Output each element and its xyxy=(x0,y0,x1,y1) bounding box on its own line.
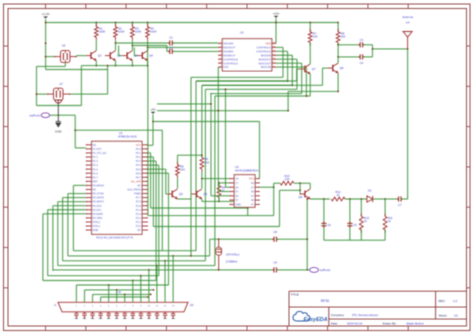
svg-text:2Y: 2Y xyxy=(235,191,238,194)
svg-text:NC: NC xyxy=(137,184,141,188)
svg-text:3A: 3A xyxy=(235,195,238,198)
svg-text:GND: GND xyxy=(55,130,63,134)
svg-text:C1: C1 xyxy=(169,36,173,40)
svg-text:6Y: 6Y xyxy=(251,186,254,189)
svg-text:P1.1/T2_EX: P1.1/T2_EX xyxy=(93,151,107,155)
svg-text:4: 4 xyxy=(220,54,221,56)
svg-text:AT89C52-24JC: AT89C52-24JC xyxy=(118,135,137,139)
svg-text:P3.2/INT0: P3.2/INT0 xyxy=(93,196,105,200)
svg-text:VCC: VCC xyxy=(136,143,142,147)
svg-text:U3: U3 xyxy=(235,165,239,169)
svg-text:D1: D1 xyxy=(368,189,372,193)
svg-text:6: 6 xyxy=(220,62,221,64)
svg-text:9I/OBOUT: 9I/OBOUT xyxy=(223,53,236,57)
svg-text:P2.0: P2.0 xyxy=(136,224,142,228)
svg-text:C6: C6 xyxy=(327,223,331,227)
svg-text:NC: NC xyxy=(93,143,97,147)
svg-text:Drawn By:: Drawn By: xyxy=(383,321,397,325)
svg-text:8: 8 xyxy=(273,66,274,68)
svg-text:U7: U7 xyxy=(59,82,63,86)
svg-text:3Y: 3Y xyxy=(235,199,238,202)
svg-text:P2.1: P2.1 xyxy=(136,220,142,224)
svg-text:C7: C7 xyxy=(398,203,402,207)
svg-text:C4: C4 xyxy=(360,61,364,65)
svg-text:2A: 2A xyxy=(235,186,238,189)
svg-text:4A: 4A xyxy=(251,199,254,202)
svg-text:txdPort2: txdPort2 xyxy=(320,268,331,272)
svg-text:P1.4: P1.4 xyxy=(93,163,99,167)
svg-text:12: 12 xyxy=(273,50,275,52)
svg-text:XTAL1: XTAL1 xyxy=(93,224,101,228)
svg-text:P1.6: P1.6 xyxy=(93,171,99,175)
svg-text:5Y: 5Y xyxy=(251,195,254,198)
svg-text:Q2: Q2 xyxy=(98,54,102,58)
svg-text:CONTROLD: CONTROLD xyxy=(223,61,238,65)
svg-text:11: 11 xyxy=(273,54,275,56)
svg-text:P1.5: P1.5 xyxy=(93,167,99,171)
svg-text:P2.3: P2.3 xyxy=(136,212,142,216)
svg-text:5A: 5A xyxy=(251,191,254,194)
svg-text:NC: NC xyxy=(137,228,141,232)
svg-text:P2.5: P2.5 xyxy=(136,204,142,208)
svg-text:C5: C5 xyxy=(353,223,357,227)
svg-text:ALE_PROG: ALE_PROG xyxy=(127,188,141,192)
svg-text:RFID: RFID xyxy=(321,299,330,303)
svg-text:3I/OA/IN: 3I/OA/IN xyxy=(223,42,233,46)
svg-text:+5V: +5V xyxy=(150,108,157,112)
svg-text:7: 7 xyxy=(220,66,221,68)
svg-text:SN74LS06BBVRGA: SN74LS06BBVRGA xyxy=(235,169,259,173)
svg-text:Date:: Date: xyxy=(331,321,338,325)
svg-text:U4: U4 xyxy=(406,21,410,25)
svg-text:1A: 1A xyxy=(235,178,238,181)
svg-text:P3.3/INT1: P3.3/INT1 xyxy=(93,200,105,204)
svg-text:6A: 6A xyxy=(251,182,254,185)
svg-text:220: 220 xyxy=(180,168,185,172)
svg-text:+3.3V: +3.3V xyxy=(42,12,51,16)
svg-text:1.0: 1.0 xyxy=(453,299,458,303)
svg-text:P0.5: P0.5 xyxy=(136,167,142,171)
svg-text:P3.5/T1: P3.5/T1 xyxy=(93,208,103,212)
svg-text:C8: C8 xyxy=(273,230,277,234)
svg-text:Q8: Q8 xyxy=(340,66,344,70)
svg-text:P0.6: P0.6 xyxy=(136,171,142,175)
svg-text:P0.0: P0.0 xyxy=(136,147,142,151)
svg-text:9I/OCOUT: 9I/OCOUT xyxy=(259,61,272,65)
svg-text:+10v: +10v xyxy=(273,12,280,16)
svg-text:2200: 2200 xyxy=(118,30,125,34)
svg-text:VDD: VDD xyxy=(265,42,271,46)
svg-text:Sheet:: Sheet: xyxy=(439,313,448,317)
svg-text:P0.4: P0.4 xyxy=(136,163,142,167)
svg-text:9: 9 xyxy=(273,62,274,64)
svg-text:100: 100 xyxy=(285,177,290,181)
svg-text:STL Semiconductor: STL Semiconductor xyxy=(352,313,378,317)
svg-text:Q4: Q4 xyxy=(149,54,153,58)
svg-text:10: 10 xyxy=(273,58,275,60)
svg-text:P2.7: P2.7 xyxy=(136,196,142,200)
svg-text:EA_VPP: EA_VPP xyxy=(131,179,141,183)
svg-text:3: 3 xyxy=(220,50,221,52)
svg-text:U5: U5 xyxy=(118,290,122,294)
svg-text:P2.4: P2.4 xyxy=(136,208,142,212)
svg-text:P3.6/WR: P3.6/WR xyxy=(93,212,103,216)
svg-text:9I/ODOUT: 9I/ODOUT xyxy=(259,57,272,61)
svg-text:9I/OC/IN: 9I/OC/IN xyxy=(261,65,271,69)
svg-text:P3.4/T0: P3.4/T0 xyxy=(93,204,103,208)
svg-text:P0.2: P0.2 xyxy=(136,155,142,159)
svg-text:P1.7: P1.7 xyxy=(93,175,99,179)
svg-text:1/1: 1/1 xyxy=(454,313,459,317)
svg-text:P1.2: P1.2 xyxy=(93,155,99,159)
svg-text:9I/OAOUT: 9I/OAOUT xyxy=(223,45,236,49)
svg-text:2: 2 xyxy=(220,46,221,48)
svg-text:GND: GND xyxy=(93,228,99,232)
svg-text:100: 100 xyxy=(205,160,210,164)
svg-text:Q8: Q8 xyxy=(298,195,302,199)
svg-text:C9: C9 xyxy=(273,260,277,264)
svg-text:13: 13 xyxy=(273,46,275,48)
svg-text:Elijah Muthui: Elijah Muthui xyxy=(407,321,425,325)
svg-text:2024-02-19: 2024-02-19 xyxy=(347,321,363,325)
svg-text:VCC: VCC xyxy=(249,178,254,181)
svg-text:U6: U6 xyxy=(62,43,66,47)
svg-text:P2.2: P2.2 xyxy=(136,216,142,220)
svg-text:P3.1/TXD: P3.1/TXD xyxy=(93,192,104,196)
svg-text:2200: 2200 xyxy=(150,30,157,34)
svg-text:txdPort1: txdPort1 xyxy=(29,114,40,118)
svg-text:EasyEDA: EasyEDA xyxy=(304,317,328,323)
svg-text:TITLE:: TITLE: xyxy=(291,293,300,297)
svg-text:14: 14 xyxy=(273,42,275,44)
svg-text:CRYSTAL1: CRYSTAL1 xyxy=(226,252,240,256)
svg-text:9I/OD/IN: 9I/OD/IN xyxy=(261,53,271,57)
svg-text:2200: 2200 xyxy=(135,30,142,34)
svg-text:P2.6: P2.6 xyxy=(136,200,142,204)
svg-text:P3.0/RXD: P3.0/RXD xyxy=(93,184,104,188)
svg-text:Q7: Q7 xyxy=(312,67,316,71)
svg-text:RST: RST xyxy=(93,179,99,183)
svg-text:U2: U2 xyxy=(240,31,244,35)
svg-text:PLCC-44_L16.6-W16.6-P1.27-TL: PLCC-44_L16.6-W16.6-P1.27-TL xyxy=(96,236,134,239)
svg-text:C3: C3 xyxy=(360,38,364,42)
svg-text:CONTROLB: CONTROLB xyxy=(223,57,238,61)
svg-text:4Y: 4Y xyxy=(251,204,254,207)
svg-text:P0.7: P0.7 xyxy=(136,175,142,179)
svg-text:220: 220 xyxy=(341,35,346,39)
svg-text:(3.58MHz: (3.58MHz xyxy=(226,259,238,263)
svg-text:1Y: 1Y xyxy=(235,182,238,185)
svg-text:CONTROLD: CONTROLD xyxy=(256,49,271,53)
svg-text:5: 5 xyxy=(220,58,221,60)
svg-text:Q5: Q5 xyxy=(179,192,183,196)
svg-text:NC: NC xyxy=(93,188,97,192)
svg-text:P0.3: P0.3 xyxy=(136,159,142,163)
svg-text:Antenna: Antenna xyxy=(402,15,413,19)
svg-text:J26: J26 xyxy=(190,304,195,307)
svg-text:PSEN: PSEN xyxy=(134,192,141,196)
svg-text:P3.7/RD: P3.7/RD xyxy=(93,216,103,220)
svg-text:CONTROLA: CONTROLA xyxy=(256,45,271,49)
svg-text:P1.3: P1.3 xyxy=(93,159,99,163)
svg-text:2200: 2200 xyxy=(99,30,106,34)
svg-text:3I/OB/IN: 3I/OB/IN xyxy=(223,49,233,53)
svg-text:C2: C2 xyxy=(169,46,173,50)
svg-text:P0.1: P0.1 xyxy=(136,151,142,155)
svg-text:Q6: Q6 xyxy=(203,192,207,196)
svg-text:VSS: VSS xyxy=(223,65,228,69)
svg-text:GND: GND xyxy=(235,204,241,207)
svg-text:P1.0/T2: P1.0/T2 xyxy=(93,147,103,151)
svg-text:XTAL2: XTAL2 xyxy=(93,220,101,224)
svg-text:REV:: REV: xyxy=(439,299,446,303)
svg-text:220: 220 xyxy=(313,35,318,39)
svg-text:1: 1 xyxy=(220,42,221,44)
svg-text:Company:: Company: xyxy=(331,313,345,317)
